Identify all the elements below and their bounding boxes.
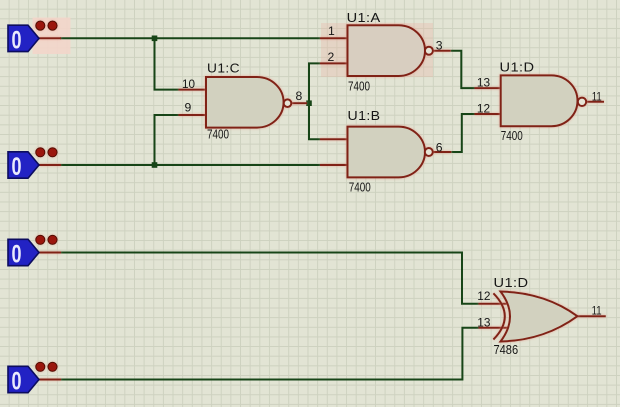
svg-text:U1:A: U1:A	[347, 10, 381, 25]
wire branch to U1:C pin9	[155, 115, 179, 165]
logicstate input 2 body	[8, 152, 39, 178]
U1:C pin 9 stub	[179, 114, 207, 116]
svg-text:7400: 7400	[207, 127, 229, 142]
XOR pin 12 stub	[479, 303, 509, 305]
junction dots	[152, 36, 312, 168]
svg-text:U1:B: U1:B	[348, 108, 381, 123]
wire U1:A out to U1:D pin13	[451, 51, 475, 88]
U1:D pin 11 output stub	[586, 101, 604, 103]
U1:A pin 3 output stub	[433, 50, 451, 52]
svg-text:11: 11	[592, 304, 602, 318]
U1:D pin 13 stub	[475, 87, 501, 89]
svg-text:12: 12	[477, 101, 490, 115]
wire IN1 to U1:A pin1	[60, 37, 320, 39]
logicstate input 2 dots	[36, 148, 57, 157]
wire IN2 to U1:B pin5	[60, 164, 320, 166]
wire IN4 to XOR pin13	[60, 328, 479, 380]
wire U1:B out to U1:D pin12	[451, 114, 474, 152]
nand gate U1:C body	[206, 77, 284, 128]
U1:B pin 6 output stub	[433, 151, 452, 153]
svg-text:7400: 7400	[349, 179, 371, 194]
XOR pin 13 stub	[479, 327, 509, 329]
nand gate U1:A output bubble	[425, 47, 433, 55]
U1:B pin 4 stub	[320, 138, 348, 140]
svg-text:0: 0	[12, 241, 22, 269]
wire IN3 to XOR pin12	[60, 253, 479, 304]
xor gate U1:D input arc	[493, 293, 504, 339]
input 3 pin	[39, 252, 61, 254]
wire U1:C out to U1:A pin2	[307, 63, 321, 103]
input 4 pin	[39, 379, 61, 381]
logicstate input 4 dots	[36, 362, 57, 371]
nand gate U1:D output bubble	[578, 98, 586, 106]
wire branch to U1:C pin10	[155, 38, 179, 89]
svg-text:11: 11	[592, 89, 602, 103]
nand gate U1:D body	[501, 75, 578, 126]
svg-text:13: 13	[477, 316, 490, 330]
logicstate input 3 dots	[36, 235, 57, 244]
logicstate input 1 dots	[36, 21, 57, 30]
U1:C pin 8 stub	[291, 102, 307, 104]
nand gate U1:C output bubble	[284, 99, 292, 107]
node junction A-top	[152, 36, 158, 42]
svg-text:13: 13	[477, 76, 490, 90]
svg-text:3: 3	[436, 39, 443, 53]
xor gate U1:D (7486) body	[501, 292, 578, 342]
svg-text:7400: 7400	[501, 128, 523, 143]
U1:A pin 1 stub	[320, 37, 348, 39]
nand gate U1:B body	[348, 127, 425, 178]
svg-text:U1:D: U1:D	[494, 275, 529, 290]
svg-text:10: 10	[182, 77, 195, 91]
svg-text:0: 0	[12, 368, 22, 396]
U1:D pin 12 stub	[475, 113, 501, 115]
XOR pin 11 output stub	[578, 315, 606, 317]
svg-text:2: 2	[328, 50, 335, 64]
input 1 pin	[39, 37, 61, 39]
svg-text:0: 0	[12, 27, 22, 55]
svg-text:U1:C: U1:C	[207, 60, 240, 75]
wire U1:C out to U1:B pin4	[309, 103, 320, 139]
svg-text:8: 8	[296, 89, 303, 103]
svg-text:7486: 7486	[494, 342, 519, 357]
node junction gate C output	[306, 100, 312, 106]
nand gate U1:A body	[348, 25, 425, 76]
logicstate input 3 body	[8, 239, 39, 265]
U1:B pin 5 stub	[320, 164, 348, 166]
nand gate U1:B output bubble	[425, 148, 433, 156]
U1:C pin 10 stub	[179, 89, 207, 91]
svg-text:7400: 7400	[348, 79, 370, 94]
logicstate input 1 body	[8, 25, 39, 51]
selection highlight box around input 1	[33, 18, 71, 55]
logicstate input 4 body	[8, 366, 39, 392]
node junction B-bottom	[152, 162, 158, 168]
svg-text:6: 6	[436, 141, 443, 155]
svg-text:1: 1	[328, 24, 335, 38]
svg-text:U1:D: U1:D	[500, 60, 535, 75]
svg-text:0: 0	[12, 153, 22, 181]
U1:A pin 2 stub	[320, 62, 348, 64]
svg-text:12: 12	[477, 289, 490, 303]
selection highlight wash around gate U1:A	[321, 23, 433, 77]
input 2 pin	[39, 164, 61, 166]
svg-text:9: 9	[185, 101, 192, 115]
